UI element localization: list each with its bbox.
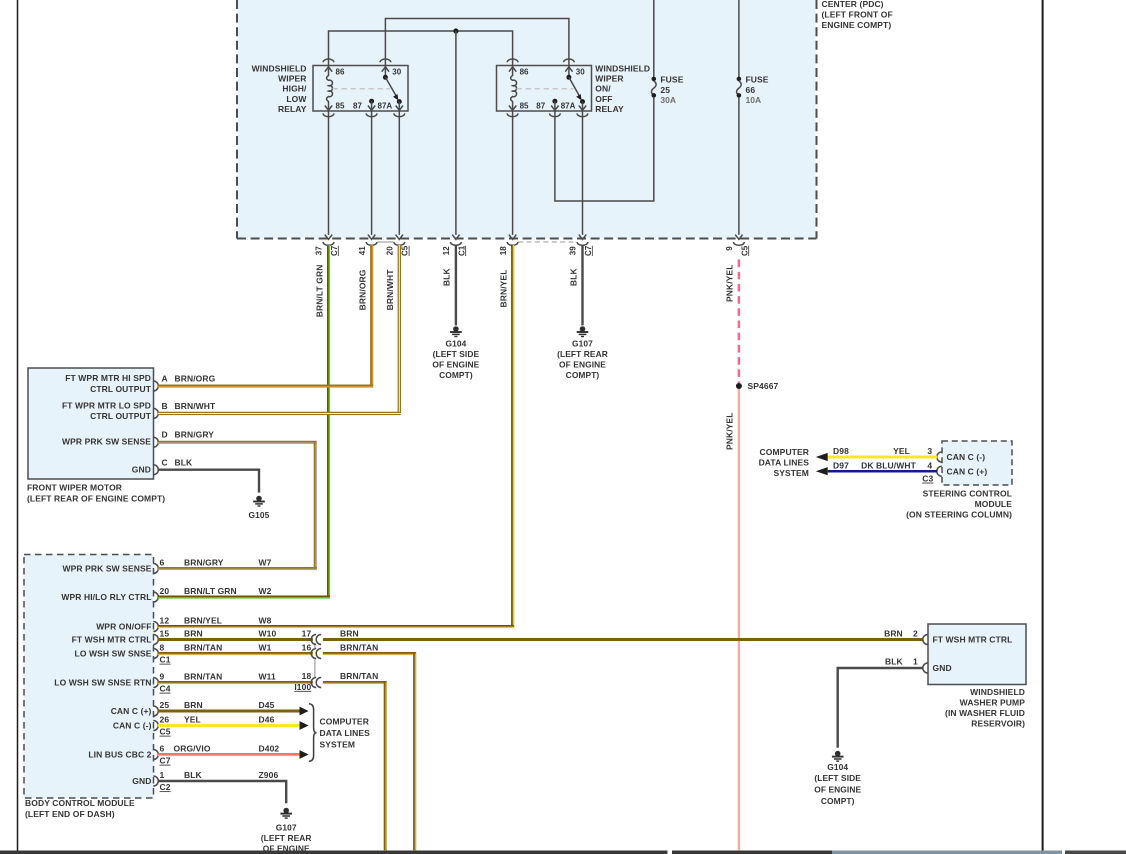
- wire relay K2 pin87A to exit 39: [582, 111, 584, 235]
- SCM pin arcs: [937, 452, 942, 476]
- svg-text:G105: G105: [249, 510, 270, 520]
- svg-text:6: 6: [160, 558, 165, 568]
- svg-text:OF ENGINE: OF ENGINE: [432, 359, 479, 369]
- svg-text:B: B: [162, 401, 168, 411]
- body control module box fill: [24, 555, 154, 799]
- svg-text:FUSE: FUSE: [660, 74, 683, 84]
- svg-text:YEL: YEL: [893, 446, 910, 456]
- svg-text:BRN/YEL: BRN/YEL: [498, 270, 508, 308]
- svg-text:39: 39: [569, 246, 578, 255]
- svg-text:LIN BUS CBC 2: LIN BUS CBC 2: [88, 750, 151, 760]
- fuse F66 10A: [737, 0, 769, 105]
- svg-text:WINDSHIELD: WINDSHIELD: [970, 687, 1025, 697]
- pin A label BRN/ORG: [162, 373, 216, 383]
- wire PNK/YEL solid lower: [738, 389, 740, 850]
- svg-text:W8: W8: [259, 616, 272, 626]
- svg-text:LO WSH SW SNSE: LO WSH SW SNSE: [75, 649, 152, 659]
- ground G107 label: [557, 338, 608, 380]
- svg-text:A: A: [162, 373, 168, 383]
- svg-text:C7: C7: [584, 245, 593, 256]
- wire relay K1 pin85 to exit 37: [328, 111, 330, 235]
- svg-text:WPR HI/LO RLY CTRL: WPR HI/LO RLY CTRL: [61, 592, 151, 602]
- svg-text:41: 41: [358, 246, 367, 255]
- svg-text:2: 2: [913, 628, 918, 638]
- svg-text:DATA LINES: DATA LINES: [759, 458, 810, 468]
- labels D98 YEL 3: [833, 446, 932, 456]
- svg-text:20: 20: [160, 586, 170, 596]
- svg-text:BLK: BLK: [568, 268, 578, 287]
- PDC dashed border: [237, 0, 817, 239]
- svg-text:87: 87: [353, 101, 362, 110]
- svg-text:FUSE: FUSE: [746, 74, 769, 84]
- svg-text:PNK/YEL: PNK/YEL: [725, 265, 735, 303]
- wire junction down to exit 12: [455, 31, 457, 235]
- svg-text:WINDSHIELD: WINDSHIELD: [252, 63, 307, 73]
- svg-text:ON/: ON/: [595, 84, 611, 94]
- svg-text:BRN/TAN: BRN/TAN: [340, 671, 378, 681]
- svg-text:BRN/WHT: BRN/WHT: [175, 401, 217, 411]
- computer data lines system label right: [759, 447, 810, 478]
- svg-text:HIGH/: HIGH/: [282, 84, 307, 94]
- SCM label: [906, 489, 1012, 520]
- power distribution center PDC box fill: [238, 0, 816, 238]
- svg-text:WIPER: WIPER: [278, 74, 306, 84]
- arrow CAN C(-) to data lines: [300, 721, 309, 730]
- svg-text:WPR PRK SW SENSE: WPR PRK SW SENSE: [63, 564, 152, 574]
- svg-text:25: 25: [160, 700, 170, 710]
- svg-text:G107: G107: [572, 338, 593, 348]
- svg-text:BRN/GRY: BRN/GRY: [175, 430, 215, 440]
- PDC exit pin 37 connector C7: [315, 235, 339, 256]
- wire D98 YEL: [828, 456, 938, 459]
- svg-text:(ON STEERING COLUMN): (ON STEERING COLUMN): [906, 510, 1012, 520]
- svg-text:RELAY: RELAY: [278, 104, 307, 114]
- wire relay K2 pin85 to exit 18: [512, 111, 514, 235]
- svg-text:12: 12: [160, 616, 170, 626]
- relay K2 windshield wiper on/off relay: [497, 59, 592, 117]
- wire BRN/TAN 16 down: [323, 652, 416, 655]
- svg-text:BRN/ORG: BRN/ORG: [357, 269, 367, 310]
- svg-text:DK BLU/WHT: DK BLU/WHT: [861, 460, 917, 470]
- wire pin B BRN/WHT horizontal: [158, 412, 401, 415]
- wire BRN/ORG vertical: [370, 245, 373, 386]
- svg-text:WPR ON/OFF: WPR ON/OFF: [96, 622, 151, 632]
- labels BLK 1: [885, 656, 918, 666]
- arrow CAN C(-) to data lines left: [816, 453, 828, 461]
- svg-text:3: 3: [927, 446, 932, 456]
- svg-text:15: 15: [160, 629, 170, 639]
- svg-text:SP4667: SP4667: [748, 381, 779, 391]
- wire pin C BLK to ground G105: [158, 470, 259, 493]
- svg-text:GND: GND: [132, 776, 151, 786]
- svg-text:COMPT): COMPT): [439, 370, 473, 380]
- wire fuse 66 to exit 9: [738, 98, 740, 235]
- svg-text:C7: C7: [160, 756, 171, 766]
- wire bus pin30 to pin30: [385, 19, 569, 66]
- BCM pin name labels: [54, 564, 151, 787]
- svg-text:DATA LINES: DATA LINES: [320, 728, 371, 738]
- svg-text:C1: C1: [457, 245, 466, 256]
- svg-text:D402: D402: [259, 744, 280, 754]
- windshield washer pump box: [928, 624, 1026, 685]
- svg-text:10A: 10A: [746, 95, 762, 105]
- svg-text:BODY CONTROL MODULE: BODY CONTROL MODULE: [25, 798, 135, 808]
- labels D97 DK BLU/WHT 4: [833, 460, 932, 470]
- svg-text:BRN/LT GRN: BRN/LT GRN: [184, 586, 237, 596]
- svg-text:I100: I100: [294, 682, 311, 692]
- svg-text:FT WPR MTR LO SPD: FT WPR MTR LO SPD: [62, 400, 151, 410]
- ground G107 lower label: [261, 823, 312, 854]
- svg-text:C: C: [162, 458, 168, 468]
- svg-text:G107: G107: [276, 823, 297, 833]
- PDC exit pin 39 connector C7: [569, 235, 593, 256]
- wire BLK to ground G107: [581, 245, 583, 325]
- pin D label BRN/GRY: [162, 430, 215, 440]
- wire W2 BRN/LT GRN BCM pin20: [158, 596, 330, 599]
- bottom bar thumb: [832, 851, 1062, 854]
- svg-text:WASHER PUMP: WASHER PUMP: [960, 698, 1026, 708]
- svg-text:Z906: Z906: [259, 770, 279, 780]
- brace computer data lines: [309, 704, 316, 762]
- wire D45 BRN CAN C(+): [158, 710, 300, 713]
- svg-text:LOW: LOW: [286, 94, 307, 104]
- svg-text:86: 86: [520, 68, 529, 77]
- svg-text:D: D: [162, 430, 168, 440]
- svg-text:CAN C (+): CAN C (+): [111, 706, 152, 716]
- wire D402 ORG/VIO LIN BUS: [158, 753, 300, 756]
- svg-text:CAN C (+): CAN C (+): [947, 466, 988, 476]
- svg-text:1: 1: [160, 770, 165, 780]
- svg-text:(LEFT END OF DASH): (LEFT END OF DASH): [25, 809, 115, 819]
- relay K1 label: [252, 63, 308, 114]
- wire bus pin86 to pin86: [329, 31, 513, 66]
- pump pin arcs: [923, 635, 928, 674]
- svg-text:BLK: BLK: [175, 458, 194, 468]
- svg-text:WINDSHIELD: WINDSHIELD: [595, 63, 650, 73]
- svg-text:18: 18: [499, 246, 508, 255]
- ground G104 label: [432, 338, 479, 380]
- BCM pin number / wire color / circuit labels: [160, 558, 280, 781]
- svg-text:YEL: YEL: [184, 715, 201, 725]
- svg-text:CTRL OUTPUT: CTRL OUTPUT: [90, 384, 152, 394]
- ground G104: [453, 326, 459, 332]
- svg-text:FT WSH MTR CTRL: FT WSH MTR CTRL: [933, 635, 1013, 645]
- svg-text:(LEFT REAR: (LEFT REAR: [557, 349, 608, 359]
- diagram frame right border: [1042, 0, 1044, 851]
- svg-text:FRONT WIPER MOTOR: FRONT WIPER MOTOR: [27, 483, 122, 493]
- svg-text:30: 30: [576, 68, 585, 77]
- wire relay K1 pin87A to exit 20: [398, 111, 400, 235]
- wire pin A BRN/ORG horizontal: [158, 385, 373, 388]
- wire D46 YEL CAN C(-): [158, 724, 300, 727]
- svg-text:85: 85: [520, 101, 529, 110]
- svg-text:ORG/VIO: ORG/VIO: [174, 744, 211, 754]
- svg-text:C3: C3: [922, 474, 933, 484]
- svg-text:9: 9: [160, 672, 165, 682]
- svg-text:BRN/TAN: BRN/TAN: [340, 642, 378, 652]
- svg-text:C5: C5: [740, 245, 749, 256]
- svg-text:W1: W1: [259, 643, 272, 653]
- front wiper motor box: [28, 368, 154, 479]
- svg-text:20: 20: [386, 246, 395, 255]
- svg-text:(LEFT SIDE: (LEFT SIDE: [814, 773, 861, 783]
- wire W10 BRN BCM pin15 to I100: [158, 638, 313, 641]
- svg-text:W10: W10: [259, 629, 277, 639]
- PDC exit pin 20 connector C5: [386, 235, 410, 256]
- svg-text:C5: C5: [401, 245, 410, 256]
- svg-text:30A: 30A: [660, 95, 676, 105]
- pin B label BRN/WHT: [162, 401, 217, 411]
- svg-text:BRN/LT GRN: BRN/LT GRN: [314, 265, 324, 318]
- svg-text:86: 86: [336, 68, 345, 77]
- ground G104 right: [835, 751, 841, 757]
- PDC exit pin 12 connector C1: [442, 235, 466, 256]
- fuse F25 30A: [651, 0, 683, 105]
- svg-text:BRN/TAN: BRN/TAN: [184, 672, 222, 682]
- svg-text:1: 1: [913, 656, 918, 666]
- wire relay K1 pin87 to exit 41: [371, 111, 373, 235]
- wire BRN I100 to washer pump: [323, 638, 924, 641]
- svg-text:C4: C4: [160, 684, 171, 694]
- svg-text:4: 4: [927, 460, 932, 470]
- svg-text:D97: D97: [833, 460, 849, 470]
- BCM pin arcs: [153, 564, 158, 787]
- labels BRN 2: [884, 628, 918, 638]
- bottom bar dark mid: [672, 851, 832, 854]
- svg-text:25: 25: [660, 85, 670, 95]
- svg-text:6: 6: [160, 744, 165, 754]
- svg-text:SYSTEM: SYSTEM: [773, 468, 809, 478]
- svg-text:OF ENGINE: OF ENGINE: [814, 785, 861, 795]
- I100 tie line between arcs: [314, 645, 316, 677]
- svg-text:85: 85: [336, 101, 345, 110]
- svg-text:W7: W7: [259, 558, 272, 568]
- wire BLK pump GND to ground G104: [838, 668, 924, 748]
- svg-text:COMPUTER: COMPUTER: [320, 717, 369, 727]
- svg-text:8: 8: [160, 643, 165, 653]
- inline connector I100 arcs row9: [311, 678, 321, 688]
- svg-text:PNK/YEL: PNK/YEL: [725, 413, 735, 451]
- wire D97 DK BLU/WHT: [828, 470, 938, 473]
- svg-text:BRN: BRN: [184, 700, 203, 710]
- svg-text:RESERVOIR): RESERVOIR): [971, 719, 1025, 729]
- wire BRN/LT GRN circuit W2 vertical: [327, 245, 330, 597]
- svg-text:GND: GND: [132, 464, 151, 474]
- steering control module box: [942, 441, 1012, 485]
- svg-text:(IN WASHER FLUID: (IN WASHER FLUID: [945, 708, 1025, 718]
- svg-text:BRN/ORG: BRN/ORG: [175, 373, 216, 383]
- svg-text:CAN C (-): CAN C (-): [113, 721, 152, 731]
- svg-text:RELAY: RELAY: [595, 104, 624, 114]
- svg-text:WPR PRK SW SENSE: WPR PRK SW SENSE: [62, 436, 151, 446]
- arrow CAN C(+) to data lines left: [816, 467, 828, 475]
- svg-text:C2: C2: [160, 782, 171, 792]
- svg-text:BRN: BRN: [184, 629, 203, 639]
- splice SP4667: [736, 383, 742, 389]
- svg-text:18: 18: [302, 671, 312, 681]
- svg-text:COMPT): COMPT): [566, 370, 600, 380]
- bottom bar dark left: [0, 851, 668, 854]
- svg-text:G104: G104: [827, 762, 848, 772]
- svg-text:87A: 87A: [561, 101, 576, 110]
- svg-text:D45: D45: [259, 700, 275, 710]
- svg-text:G104: G104: [445, 338, 466, 348]
- inline connector I100 arcs row15: [311, 635, 321, 645]
- svg-text:ENGINE COMPT): ENGINE COMPT): [822, 20, 892, 30]
- svg-text:(LEFT REAR OF ENGINE COMPT): (LEFT REAR OF ENGINE COMPT): [27, 494, 165, 504]
- bottom bar dark right: [1065, 851, 1126, 854]
- connector tie line exits 18-39 dashed: [518, 241, 577, 243]
- computer data lines system label: [320, 717, 371, 750]
- svg-text:D46: D46: [259, 715, 275, 725]
- svg-text:87: 87: [536, 101, 545, 110]
- arrow CAN C(+) to data lines: [300, 707, 309, 716]
- svg-text:W11: W11: [259, 672, 276, 682]
- svg-text:(LEFT REAR: (LEFT REAR: [261, 833, 312, 843]
- pump label: [945, 687, 1025, 729]
- SCM pin labels: [947, 452, 988, 476]
- wire W1 BRN/TAN BCM pin8 to I100: [158, 652, 313, 655]
- ground G104 right label: [814, 762, 861, 806]
- arrow LIN BUS to data lines: [300, 750, 309, 759]
- svg-text:CENTER (PDC): CENTER (PDC): [822, 0, 884, 9]
- svg-text:26: 26: [160, 715, 170, 725]
- diagram frame left border: [17, 0, 19, 851]
- svg-text:17: 17: [302, 628, 312, 638]
- front wiper motor pin arcs: [153, 381, 158, 475]
- wire BRN/YEL circuit W8 vertical: [511, 245, 514, 627]
- wire W8 BRN/YEL BCM pin12: [158, 625, 514, 628]
- svg-text:CAN C (-): CAN C (-): [947, 452, 986, 462]
- svg-text:STEERING CONTROL: STEERING CONTROL: [923, 489, 1012, 499]
- svg-text:16: 16: [302, 642, 312, 652]
- wire pin D BRN/GRY to BCM pin6: [158, 441, 317, 444]
- svg-text:37: 37: [315, 246, 324, 255]
- ground G105: [256, 496, 262, 502]
- inline connector I100 arcs row8: [311, 649, 321, 659]
- svg-text:OF ENGINE: OF ENGINE: [559, 359, 606, 369]
- PDC exit pin 41: [358, 235, 377, 256]
- ground G107 lower: [283, 808, 289, 814]
- svg-text:MODULE: MODULE: [975, 499, 1013, 509]
- svg-text:C5: C5: [160, 727, 171, 737]
- wire W7 BRN/GRY BCM pin6 to motor: [158, 567, 317, 570]
- svg-text:BRN: BRN: [884, 628, 903, 638]
- connector tie line exits 41-20: [377, 241, 394, 243]
- front wiper motor label: [27, 483, 165, 504]
- pump pin labels: [933, 635, 1013, 674]
- PDC exit pin 9 connector C5: [725, 235, 749, 256]
- svg-text:FT WPR MTR HI SPD: FT WPR MTR HI SPD: [65, 373, 151, 383]
- svg-text:WIPER: WIPER: [595, 74, 623, 84]
- ground G107: [580, 326, 586, 332]
- svg-text:C1: C1: [160, 655, 171, 665]
- svg-text:30: 30: [392, 68, 401, 77]
- svg-text:SYSTEM: SYSTEM: [320, 740, 356, 750]
- svg-text:FT WSH MTR CTRL: FT WSH MTR CTRL: [72, 635, 152, 645]
- wire Z906 BLK BCM GND to ground G107: [158, 781, 286, 803]
- svg-text:W2: W2: [259, 586, 272, 596]
- svg-text:9: 9: [725, 246, 734, 251]
- svg-text:OFF: OFF: [595, 94, 612, 104]
- svg-text:(LEFT SIDE: (LEFT SIDE: [433, 349, 480, 359]
- wire BLK to ground G104: [455, 245, 457, 325]
- wire W11 BRN/TAN BCM pin9 to I100: [158, 681, 313, 684]
- svg-text:COMPUTER: COMPUTER: [760, 447, 809, 457]
- svg-text:BRN/GRY: BRN/GRY: [184, 558, 224, 568]
- svg-text:BRN/WHT: BRN/WHT: [385, 269, 395, 311]
- svg-text:12: 12: [442, 246, 451, 255]
- svg-text:BRN/YEL: BRN/YEL: [184, 616, 222, 626]
- svg-text:BLK: BLK: [885, 656, 904, 666]
- svg-text:BRN/TAN: BRN/TAN: [184, 643, 222, 653]
- svg-text:(LEFT FRONT OF: (LEFT FRONT OF: [822, 9, 893, 19]
- relay K1 windshield wiper high/low relay: [313, 59, 408, 117]
- pin C label BLK: [162, 458, 194, 468]
- svg-text:C7: C7: [330, 245, 339, 256]
- svg-text:D98: D98: [833, 446, 849, 456]
- front wiper motor pin labels: [62, 373, 152, 474]
- junction dot on 86-86 bus: [453, 28, 458, 33]
- PDC label CENTER (PDC) (LEFT FRONT OF ENGINE COMPT): [822, 0, 893, 30]
- svg-text:BRN: BRN: [340, 628, 359, 638]
- wire relay K2 pin87 to fuse 25: [555, 98, 654, 201]
- relay K2 label: [595, 63, 650, 114]
- svg-text:LO WSH SW SNSE RTN: LO WSH SW SNSE RTN: [54, 678, 151, 688]
- wire PNK/YEL dashed upper: [738, 260, 741, 385]
- svg-text:66: 66: [746, 85, 756, 95]
- svg-text:87A: 87A: [378, 101, 393, 110]
- svg-text:BLK: BLK: [184, 770, 203, 780]
- svg-text:GND: GND: [933, 663, 952, 673]
- svg-text:BLK: BLK: [442, 268, 452, 287]
- wire BRN/WHT vertical: [398, 245, 401, 413]
- BCM label: [25, 798, 135, 819]
- PDC exit pin 18: [499, 235, 518, 256]
- svg-text:COMPT): COMPT): [821, 796, 855, 806]
- wire BRN/TAN 18 down: [323, 681, 387, 684]
- svg-text:CTRL OUTPUT: CTRL OUTPUT: [90, 411, 152, 421]
